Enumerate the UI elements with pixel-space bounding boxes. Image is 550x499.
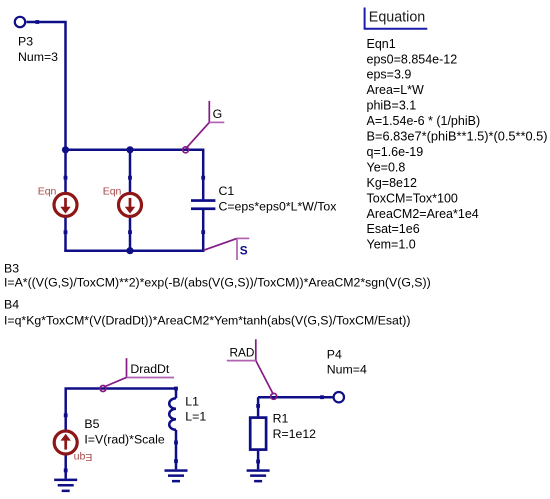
svg-text:Eqn1: Eqn1 <box>367 37 396 51</box>
svg-text:L1: L1 <box>185 394 199 408</box>
svg-text:Eqn: Eqn <box>74 451 93 463</box>
svg-text:S: S <box>240 243 248 257</box>
svg-text:B4: B4 <box>4 298 19 312</box>
svg-text:Num=3: Num=3 <box>18 50 58 64</box>
svg-text:eps=3.9: eps=3.9 <box>367 68 412 82</box>
svg-text:R1: R1 <box>273 411 289 425</box>
svg-text:AreaCM2=Area*1e4: AreaCM2=Area*1e4 <box>367 207 479 221</box>
svg-text:ToxCM=Tox*100: ToxCM=Tox*100 <box>367 191 458 205</box>
svg-text:C=eps*eps0*L*W/Tox: C=eps*eps0*L*W/Tox <box>219 199 338 213</box>
svg-text:Num=4: Num=4 <box>327 363 367 377</box>
svg-text:RAD: RAD <box>230 346 255 360</box>
svg-text:G: G <box>213 107 223 121</box>
svg-text:C1: C1 <box>219 184 235 198</box>
svg-text:eps0=8.854e-12: eps0=8.854e-12 <box>367 52 458 66</box>
svg-text:q=1.6e-19: q=1.6e-19 <box>367 145 424 159</box>
svg-text:I=V(rad)*Scale: I=V(rad)*Scale <box>84 432 164 446</box>
svg-text:Yem=1.0: Yem=1.0 <box>367 238 416 252</box>
svg-text:P3: P3 <box>18 35 33 49</box>
svg-text:B5: B5 <box>84 417 99 431</box>
svg-text:A=1.54e-6 * (1/phiB): A=1.54e-6 * (1/phiB) <box>367 114 481 128</box>
svg-text:B3: B3 <box>4 261 19 275</box>
svg-text:DradDt: DradDt <box>130 362 170 376</box>
svg-text:L=1: L=1 <box>185 409 206 423</box>
svg-text:I=q*Kg*ToxCM*(V(DradDt))*AreaC: I=q*Kg*ToxCM*(V(DradDt))*AreaCM2*Yem*tan… <box>4 314 411 328</box>
svg-text:Kg=8e12: Kg=8e12 <box>367 176 417 190</box>
svg-text:Esat=1e6: Esat=1e6 <box>367 222 420 236</box>
svg-text:Eqn: Eqn <box>103 186 122 198</box>
svg-text:R=1e12: R=1e12 <box>273 427 317 441</box>
svg-text:P4: P4 <box>327 348 342 362</box>
svg-text:Eqn: Eqn <box>38 186 57 198</box>
svg-text:Area=L*W: Area=L*W <box>367 83 425 97</box>
svg-text:Ye=0.8: Ye=0.8 <box>367 160 406 174</box>
svg-text:I=A*((V(G,S)/ToxCM)**2)*exp(-B: I=A*((V(G,S)/ToxCM)**2)*exp(-B/(abs(V(G,… <box>4 276 431 290</box>
svg-text:Equation: Equation <box>369 10 425 26</box>
svg-text:B=6.83e7*(phiB**1.5)*(0.5**0.5: B=6.83e7*(phiB**1.5)*(0.5**0.5) <box>367 129 548 144</box>
svg-text:phiB=3.1: phiB=3.1 <box>367 99 417 113</box>
